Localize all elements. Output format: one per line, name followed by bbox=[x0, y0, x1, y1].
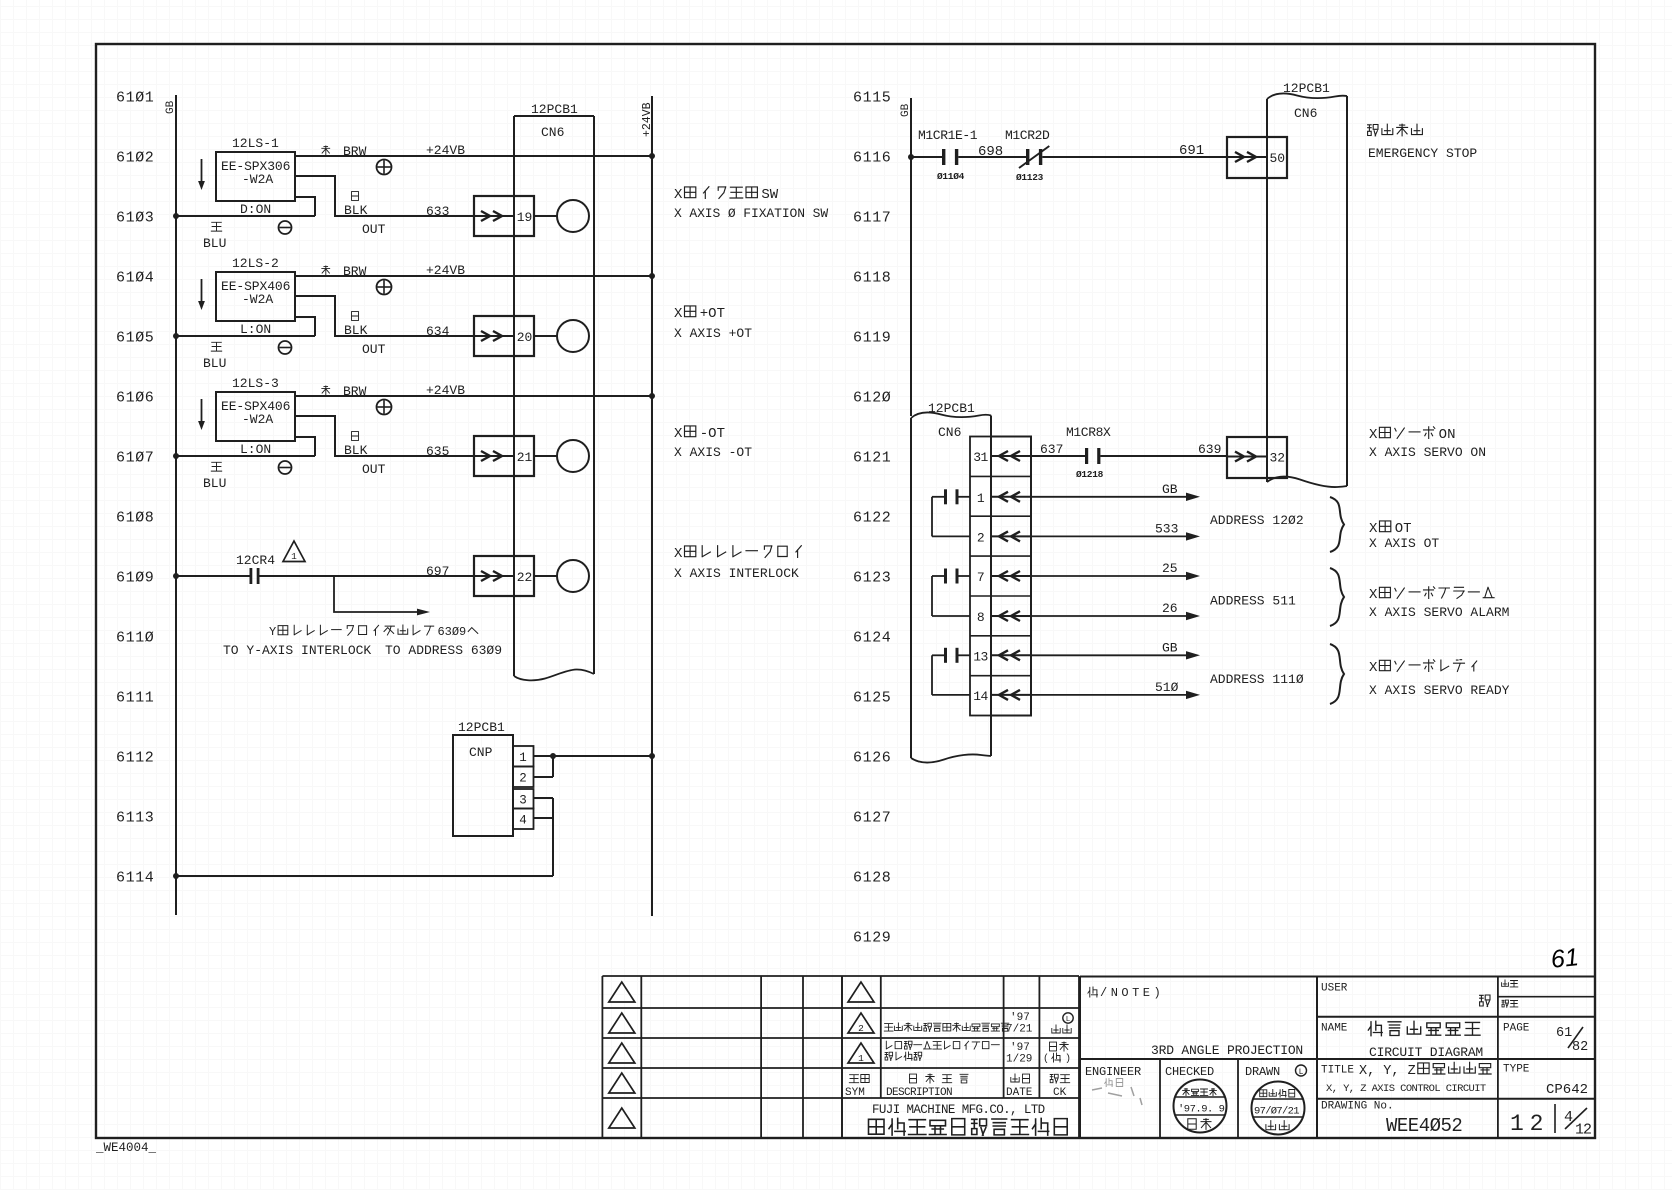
wire blue 0V lead of 12LS-1 bbox=[295, 197, 315, 216]
actuation arrow for 12LS-2 bbox=[198, 279, 205, 310]
svg-text:12CR4: 12CR4 bbox=[236, 553, 275, 568]
label X axis interlock bbox=[674, 546, 801, 581]
plus polarity symbol of 12LS-3 bbox=[377, 400, 392, 415]
limit switch sensor 12LS-1 bbox=[216, 136, 295, 217]
wire blue 0V lead of 12LS-3 bbox=[295, 437, 315, 456]
pin 20 label bbox=[517, 330, 533, 345]
svg-text:633: 633 bbox=[426, 204, 449, 219]
svg-text:61: 61 bbox=[1556, 1026, 1572, 1041]
svg-text:61Ø1: 61Ø1 bbox=[116, 90, 154, 107]
wire BLK output of 12LS-3 (wire 635) bbox=[295, 416, 474, 456]
wire +24VB brown lead of 12LS-2 (row 276) bbox=[295, 273, 655, 279]
svg-text:12LS-3: 12LS-3 bbox=[232, 376, 279, 391]
svg-text:6122: 6122 bbox=[853, 510, 891, 527]
connector pin column and arrow enclosure bbox=[970, 437, 1031, 716]
label BRW +24VB of 12LS-2 bbox=[322, 263, 465, 279]
svg-text:X: X bbox=[674, 546, 683, 562]
connector 12PCB1 CN6 (left sheet) bbox=[514, 102, 594, 680]
svg-text:6111: 6111 bbox=[116, 690, 154, 707]
arrow box into pin 22 bbox=[474, 556, 534, 596]
node line number 6111 bbox=[116, 690, 154, 707]
svg-text:6114: 6114 bbox=[116, 870, 154, 887]
svg-text:GB: GB bbox=[900, 103, 912, 117]
revision triangle (blank) bbox=[609, 1013, 635, 1033]
svg-text:DATE: DATE bbox=[1006, 1087, 1033, 1099]
svg-text:7: 7 bbox=[977, 570, 984, 585]
arrow symbol at pin 8 bbox=[991, 611, 1031, 621]
svg-text:22: 22 bbox=[517, 570, 533, 585]
CNP pin 1 box bbox=[513, 746, 534, 767]
svg-text:12PCB1: 12PCB1 bbox=[531, 102, 578, 117]
label BLU blue lead bbox=[203, 462, 226, 491]
svg-text:82: 82 bbox=[1572, 1040, 1588, 1055]
svg-text:639: 639 bbox=[1198, 442, 1221, 457]
node line number 6123 bbox=[853, 570, 891, 587]
svg-text:L: L bbox=[1299, 1068, 1304, 1077]
svg-text:_WE4004_: _WE4004_ bbox=[95, 1141, 157, 1155]
wire +24VB brown lead of 12LS-1 (row 156) bbox=[295, 153, 655, 159]
limit switch sensor 12LS-3 bbox=[216, 376, 295, 457]
node line number 6127 bbox=[853, 810, 891, 827]
svg-text:61Ø9: 61Ø9 bbox=[116, 570, 154, 587]
svg-text:6116: 6116 bbox=[853, 150, 891, 167]
svg-text:CNP: CNP bbox=[469, 745, 493, 760]
arrow box into pin 32 bbox=[1227, 437, 1287, 478]
svg-text:51Ø: 51Ø bbox=[1155, 680, 1179, 695]
svg-text:SYM: SYM bbox=[845, 1087, 865, 1099]
svg-text:12LS-2: 12LS-2 bbox=[232, 256, 279, 271]
wire 691 to pin 50 bbox=[1042, 143, 1227, 159]
wire CNP pin 3 bbox=[534, 797, 554, 799]
node line number 6114 bbox=[116, 870, 154, 887]
svg-text:698: 698 bbox=[978, 144, 1003, 160]
svg-text:6121: 6121 bbox=[853, 450, 891, 467]
brace group ADDRESS 111Ø bbox=[1210, 644, 1344, 704]
drawn cell with date stamp bbox=[1245, 1065, 1307, 1135]
node line number 6121 bbox=[853, 450, 891, 467]
node line number 6115 bbox=[853, 90, 891, 107]
relay contact 12CR4 bbox=[173, 553, 275, 584]
revision header DESCRIPTION bbox=[886, 1074, 968, 1099]
svg-text:OUT: OUT bbox=[362, 342, 386, 357]
svg-text:BRW: BRW bbox=[343, 144, 367, 159]
svg-text:/NOTE): /NOTE) bbox=[1100, 986, 1164, 1000]
svg-text:ADDRESS 511: ADDRESS 511 bbox=[1210, 594, 1296, 609]
revision header SYM bbox=[845, 1075, 869, 1100]
svg-text:X AXIS +OT: X AXIS +OT bbox=[674, 326, 752, 341]
minus polarity symbol of 12LS-3 bbox=[279, 461, 292, 474]
svg-text:TITLE: TITLE bbox=[1321, 1065, 1354, 1077]
node line number 6107 bbox=[116, 450, 154, 467]
svg-text:6127: 6127 bbox=[853, 810, 891, 827]
pin 2 number bbox=[977, 530, 984, 545]
svg-text:1/29: 1/29 bbox=[1006, 1054, 1032, 1066]
svg-text:GB: GB bbox=[1162, 640, 1178, 655]
svg-text:61Ø8: 61Ø8 bbox=[116, 510, 154, 527]
node line number 6122 bbox=[853, 510, 891, 527]
node line number 6109 bbox=[116, 570, 154, 587]
engineer cell bbox=[1085, 1059, 1160, 1138]
svg-text:21: 21 bbox=[517, 450, 533, 465]
connector 12PCB1 CN6 (right sheet) bbox=[1267, 81, 1347, 487]
revision row 2 description (Japanese) bbox=[884, 1023, 1009, 1031]
svg-text:M1CR2D: M1CR2D bbox=[1005, 128, 1050, 143]
svg-text:TO Y-AXIS INTERLOCK: TO Y-AXIS INTERLOCK bbox=[223, 643, 371, 658]
svg-text:+24VB: +24VB bbox=[641, 102, 654, 137]
svg-text:25: 25 bbox=[1162, 561, 1178, 576]
wire rung 6114 to GB bus bbox=[173, 873, 553, 879]
svg-text:61Ø7: 61Ø7 bbox=[116, 450, 154, 467]
input contact pair rows 655/694 bbox=[932, 648, 970, 695]
svg-text:2: 2 bbox=[519, 771, 527, 785]
label X axis zero fixation SW bbox=[674, 187, 828, 221]
svg-text:1 2: 1 2 bbox=[1510, 1111, 1543, 1137]
wire 697 to pin 22 bbox=[260, 564, 475, 579]
label X axis servo on bbox=[1369, 427, 1486, 460]
node line number 6129 bbox=[853, 930, 891, 947]
pin 19 label bbox=[517, 210, 533, 225]
svg-text:Ø11Ø4: Ø11Ø4 bbox=[937, 171, 965, 182]
signal wire GB at y 496 bbox=[1031, 482, 1200, 501]
svg-text:'97: '97 bbox=[1010, 1012, 1030, 1024]
node line number 6119 bbox=[853, 330, 891, 347]
label TO Y-AXIS INTERLOCK TO ADDRESS 6309 bbox=[223, 643, 502, 658]
svg-text:61Ø3: 61Ø3 bbox=[116, 210, 154, 227]
signal wire GB at y 655 bbox=[1031, 640, 1200, 659]
node line number 6125 bbox=[853, 690, 891, 707]
pin 32 label bbox=[1269, 451, 1285, 466]
label BRW +24VB of 12LS-1 bbox=[322, 143, 465, 159]
svg-text:61: 61 bbox=[1549, 943, 1580, 974]
label X axis OT bbox=[1369, 521, 1439, 551]
svg-text:NAME: NAME bbox=[1321, 1023, 1348, 1035]
svg-text:8: 8 bbox=[977, 610, 984, 625]
node line number 6113 bbox=[116, 810, 154, 827]
svg-text:637: 637 bbox=[1040, 442, 1063, 457]
pin 21 label bbox=[517, 450, 533, 465]
arrow box into pin 21 bbox=[474, 436, 534, 476]
svg-text:CK: CK bbox=[1053, 1087, 1067, 1099]
svg-text:612Ø: 612Ø bbox=[853, 390, 891, 407]
brace group ADDRESS 12Ø2 bbox=[1210, 497, 1344, 552]
label BRW +24VB of 12LS-3 bbox=[322, 383, 465, 399]
wire pin 20 to lamp circle bbox=[535, 335, 558, 337]
svg-text:M1CR8X: M1CR8X bbox=[1066, 425, 1111, 440]
svg-text:635: 635 bbox=[426, 444, 449, 459]
node line number 6124 bbox=[853, 630, 891, 647]
net GB left bus bbox=[165, 95, 177, 915]
svg-text:ADDRESS 12Ø2: ADDRESS 12Ø2 bbox=[1210, 513, 1304, 528]
svg-text:GB: GB bbox=[165, 100, 177, 114]
svg-text:19: 19 bbox=[517, 210, 533, 225]
svg-text:D:ON: D:ON bbox=[240, 202, 271, 217]
svg-text:6119: 6119 bbox=[853, 330, 891, 347]
wire BLK output of 12LS-2 (wire 634) bbox=[295, 296, 474, 336]
wire GB rung at row 456 bbox=[173, 453, 315, 459]
svg-text:CIRCUIT DIAGRAM: CIRCUIT DIAGRAM bbox=[1369, 1045, 1483, 1060]
svg-text:7/21: 7/21 bbox=[1006, 1024, 1033, 1036]
wire GB rung at row 216 bbox=[173, 213, 315, 219]
svg-text:697: 697 bbox=[426, 564, 449, 579]
svg-text:6128: 6128 bbox=[853, 870, 891, 887]
node line number 6112 bbox=[116, 750, 154, 767]
arrow box into pin 20 bbox=[474, 316, 534, 356]
pin 22 label bbox=[517, 570, 533, 585]
wire CNP pin 1 to +24VB bus bbox=[534, 753, 656, 759]
svg-text:12: 12 bbox=[1575, 1122, 1591, 1139]
net +24VB left bus bbox=[641, 96, 654, 916]
circle symbol at pin 22 bbox=[557, 560, 589, 592]
signal wire 26 at y 616 bbox=[1031, 601, 1200, 620]
svg-text:12LS-1: 12LS-1 bbox=[232, 136, 279, 151]
svg-text:12PCB1: 12PCB1 bbox=[458, 720, 505, 735]
revision table left bbox=[602, 976, 842, 1138]
wire blue 0V lead of 12LS-2 bbox=[295, 317, 315, 336]
svg-text:X AXIS INTERLOCK: X AXIS INTERLOCK bbox=[674, 566, 799, 581]
sheet 12 cell bbox=[1498, 1099, 1543, 1138]
branch wire to Y-axis interlock / address 6309 bbox=[334, 576, 430, 615]
svg-text:13: 13 bbox=[973, 649, 988, 664]
revision row 3 CK Yamamoto bbox=[1043, 1042, 1071, 1065]
svg-text:Y: Y bbox=[269, 625, 276, 639]
wire 637 from pin 31 bbox=[1031, 442, 1085, 457]
signal wire 533 at y 536 bbox=[1031, 521, 1200, 540]
revision triangle (blank) bbox=[609, 1043, 635, 1063]
revision triangle 1 bbox=[848, 1043, 874, 1064]
svg-text:4: 4 bbox=[519, 813, 527, 827]
relay contact M1CR1E-1 bbox=[918, 128, 978, 182]
revision header CK bbox=[1050, 1074, 1070, 1099]
warning triangle 1 bbox=[283, 541, 305, 562]
svg-text:+OT: +OT bbox=[700, 306, 725, 322]
svg-text:SW: SW bbox=[761, 187, 778, 203]
svg-text:97/Ø7/21: 97/Ø7/21 bbox=[1254, 1106, 1299, 1118]
svg-text:-W2A: -W2A bbox=[242, 292, 273, 307]
svg-text:6118: 6118 bbox=[853, 270, 891, 287]
svg-text:OUT: OUT bbox=[362, 222, 386, 237]
svg-text:X AXIS SERVO READY: X AXIS SERVO READY bbox=[1369, 683, 1510, 698]
node line number 6128 bbox=[853, 870, 891, 887]
svg-text:+24VB: +24VB bbox=[426, 263, 465, 278]
svg-text:+24VB: +24VB bbox=[426, 383, 465, 398]
svg-text:61Ø4: 61Ø4 bbox=[116, 270, 154, 287]
label BLK 633 OUT bbox=[344, 192, 449, 237]
revision row 3 description (Japanese) bbox=[885, 1041, 999, 1060]
plus polarity symbol of 12LS-2 bbox=[377, 280, 392, 295]
arrow symbol at pin 31 bbox=[991, 451, 1031, 461]
revision triangle (blank) row1 bbox=[848, 982, 874, 1002]
svg-text:61Ø2: 61Ø2 bbox=[116, 150, 154, 167]
wire pin 21 to lamp circle bbox=[535, 455, 558, 457]
actuation arrow for 12LS-3 bbox=[198, 399, 205, 430]
arrow symbol at pin 1 bbox=[991, 492, 1031, 502]
input contact pair rows 576/616 bbox=[932, 569, 970, 617]
svg-text:GB: GB bbox=[1162, 482, 1178, 497]
wire 698 bbox=[958, 144, 1026, 160]
svg-text:691: 691 bbox=[1179, 143, 1204, 159]
revision row 2 date bbox=[1006, 1012, 1033, 1036]
circle symbol at pin 19 bbox=[557, 200, 589, 232]
svg-text:6112: 6112 bbox=[116, 750, 154, 767]
svg-text:-W2A: -W2A bbox=[242, 412, 273, 427]
label BLU blue lead bbox=[203, 342, 226, 371]
label X axis servo ready bbox=[1369, 660, 1510, 698]
svg-text:6129: 6129 bbox=[853, 930, 891, 947]
arrow symbol at pin 13 bbox=[991, 650, 1031, 660]
svg-text:BRW: BRW bbox=[343, 384, 367, 399]
arrow box into pin 19 bbox=[474, 196, 534, 236]
label X axis +OT bbox=[674, 306, 752, 341]
label to Y-axis interlock (Japanese) bbox=[269, 625, 478, 639]
revision row 3 date bbox=[1006, 1042, 1032, 1066]
svg-text:X AXIS SERVO ALARM: X AXIS SERVO ALARM bbox=[1369, 605, 1509, 620]
svg-text:X, Y, Z: X, Y, Z bbox=[1359, 1064, 1416, 1079]
signal wire 25 at y 576 bbox=[1031, 561, 1200, 580]
svg-text:Ø1218: Ø1218 bbox=[1076, 469, 1104, 480]
svg-text:BLU: BLU bbox=[203, 476, 226, 491]
minus polarity symbol of 12LS-1 bbox=[279, 221, 292, 234]
svg-text:CN6: CN6 bbox=[938, 425, 961, 440]
node line number 6126 bbox=[853, 750, 891, 767]
page cell 61/82 bbox=[1498, 1017, 1588, 1059]
svg-text:X AXIS -OT: X AXIS -OT bbox=[674, 445, 752, 460]
label X axis servo alarm bbox=[1369, 587, 1509, 620]
svg-text:X, Y, Z AXIS CONTROL CIRCUIT: X, Y, Z AXIS CONTROL CIRCUIT bbox=[1326, 1083, 1486, 1095]
CNP pin 4 box bbox=[513, 809, 534, 830]
label BLK 634 OUT bbox=[344, 312, 450, 357]
svg-text:X: X bbox=[674, 306, 683, 322]
svg-text:-W2A: -W2A bbox=[242, 172, 273, 187]
relay contact M1CR8X bbox=[1066, 425, 1111, 480]
svg-text:ON: ON bbox=[1439, 427, 1456, 443]
relay contact M1CR2D (NC) bbox=[1005, 128, 1050, 183]
note block bbox=[1080, 977, 1595, 1139]
svg-text:X AXIS Ø FIXATION SW: X AXIS Ø FIXATION SW bbox=[674, 206, 828, 221]
revision triangle (blank) bbox=[609, 982, 635, 1002]
title cell X,Y,Z axis control circuit bbox=[1317, 1059, 1595, 1095]
name cell CIRCUIT DIAGRAM bbox=[1317, 1017, 1595, 1060]
svg-text:X: X bbox=[674, 426, 683, 442]
node line number 6102 bbox=[116, 150, 154, 167]
svg-text:): ) bbox=[1065, 1053, 1071, 1065]
svg-text:TO ADDRESS 63Ø9: TO ADDRESS 63Ø9 bbox=[385, 643, 502, 658]
svg-text:OUT: OUT bbox=[362, 462, 386, 477]
brace group ADDRESS 511 bbox=[1210, 568, 1344, 626]
svg-text:31: 31 bbox=[973, 450, 988, 465]
svg-text:533: 533 bbox=[1155, 521, 1178, 536]
svg-text:'97.9. 9: '97.9. 9 bbox=[1178, 1104, 1225, 1116]
svg-text:CN6: CN6 bbox=[541, 125, 564, 140]
type cell CP642 bbox=[1498, 1059, 1588, 1099]
arrow symbol at pin 14 bbox=[991, 690, 1031, 700]
svg-text:6117: 6117 bbox=[853, 210, 891, 227]
node line number 6106 bbox=[116, 390, 154, 407]
node line number 6101 bbox=[116, 90, 154, 107]
svg-text:WEE4Ø52: WEE4Ø52 bbox=[1386, 1115, 1462, 1137]
svg-text:BLK: BLK bbox=[344, 203, 368, 218]
svg-text:26: 26 bbox=[1162, 601, 1178, 616]
svg-text:6123: 6123 bbox=[853, 570, 891, 587]
pin 13 number bbox=[973, 649, 988, 664]
pin 31 number bbox=[973, 450, 988, 465]
svg-text:CHECKED: CHECKED bbox=[1165, 1065, 1214, 1079]
svg-text:1: 1 bbox=[977, 491, 985, 506]
label X axis -OT bbox=[674, 426, 752, 460]
pin 50 label bbox=[1269, 151, 1285, 166]
svg-text:1: 1 bbox=[858, 1053, 864, 1064]
checked cell with date stamp bbox=[1165, 1059, 1238, 1138]
node line number 6117 bbox=[853, 210, 891, 227]
node line number 6120 bbox=[853, 390, 891, 407]
limit switch sensor 12LS-2 bbox=[216, 256, 295, 337]
circle symbol at pin 20 bbox=[557, 320, 589, 352]
node line number 6116 bbox=[853, 150, 891, 167]
svg-text:2: 2 bbox=[977, 530, 984, 545]
svg-text:X: X bbox=[1369, 521, 1378, 537]
net GB right bus bbox=[900, 98, 912, 416]
svg-text:6126: 6126 bbox=[853, 750, 891, 767]
svg-text:L:ON: L:ON bbox=[240, 322, 271, 337]
revision triangle 2 bbox=[848, 1013, 874, 1034]
svg-text:6125: 6125 bbox=[853, 690, 891, 707]
svg-text:2: 2 bbox=[858, 1023, 864, 1034]
connector 12PCB1 CNP bbox=[453, 720, 513, 836]
svg-text:20: 20 bbox=[517, 330, 533, 345]
sheet code label bbox=[95, 1141, 157, 1155]
node line number 6104 bbox=[116, 270, 154, 287]
svg-text:BLU: BLU bbox=[203, 356, 226, 371]
arrow symbol at pin 7 bbox=[991, 571, 1031, 581]
svg-text:611Ø: 611Ø bbox=[116, 630, 154, 647]
pin 7 number bbox=[977, 570, 984, 585]
CNP pin 2 box bbox=[513, 767, 534, 788]
svg-text:-OT: -OT bbox=[700, 426, 725, 442]
wire pin 22 to circle bbox=[535, 575, 558, 577]
svg-text:X AXIS SERVO ON: X AXIS SERVO ON bbox=[1369, 445, 1486, 460]
svg-text:61Ø5: 61Ø5 bbox=[116, 330, 154, 347]
revision triangle (blank) bbox=[609, 1073, 635, 1093]
svg-text:61Ø6: 61Ø6 bbox=[116, 390, 154, 407]
pin 14 number bbox=[973, 689, 988, 704]
svg-text:+24VB: +24VB bbox=[426, 143, 465, 158]
svg-text:L: L bbox=[1066, 1016, 1071, 1024]
svg-text:BLK: BLK bbox=[344, 323, 368, 338]
svg-text:USER: USER bbox=[1321, 983, 1348, 995]
svg-text:X AXIS OT: X AXIS OT bbox=[1369, 536, 1439, 551]
node line number 6105 bbox=[116, 330, 154, 347]
svg-text:1: 1 bbox=[519, 751, 527, 765]
svg-text:X: X bbox=[1369, 427, 1378, 443]
svg-text:PAGE: PAGE bbox=[1503, 1023, 1530, 1035]
svg-text:3: 3 bbox=[519, 793, 527, 807]
svg-text:TYPE: TYPE bbox=[1503, 1064, 1530, 1076]
svg-text:FUJI MACHINE MFG.CO., LTD: FUJI MACHINE MFG.CO., LTD bbox=[872, 1103, 1045, 1117]
svg-text:14: 14 bbox=[973, 689, 988, 704]
svg-text:X: X bbox=[674, 187, 683, 203]
node line number 6103 bbox=[116, 210, 154, 227]
svg-text:32: 32 bbox=[1269, 451, 1285, 466]
svg-text:6124: 6124 bbox=[853, 630, 891, 647]
svg-text:'97: '97 bbox=[1010, 1042, 1030, 1054]
svg-text:6115: 6115 bbox=[853, 90, 891, 107]
signal wire 51Ø at y 694 bbox=[1031, 680, 1200, 699]
wire rung 6116 from GB bus bbox=[908, 154, 942, 160]
svg-text:OT: OT bbox=[1395, 521, 1412, 537]
svg-text:BLK: BLK bbox=[344, 443, 368, 458]
revision row 2 CK stamp L Esaka bbox=[1052, 1013, 1073, 1033]
pin 1 number bbox=[977, 491, 985, 506]
svg-text:L:ON: L:ON bbox=[240, 442, 271, 457]
